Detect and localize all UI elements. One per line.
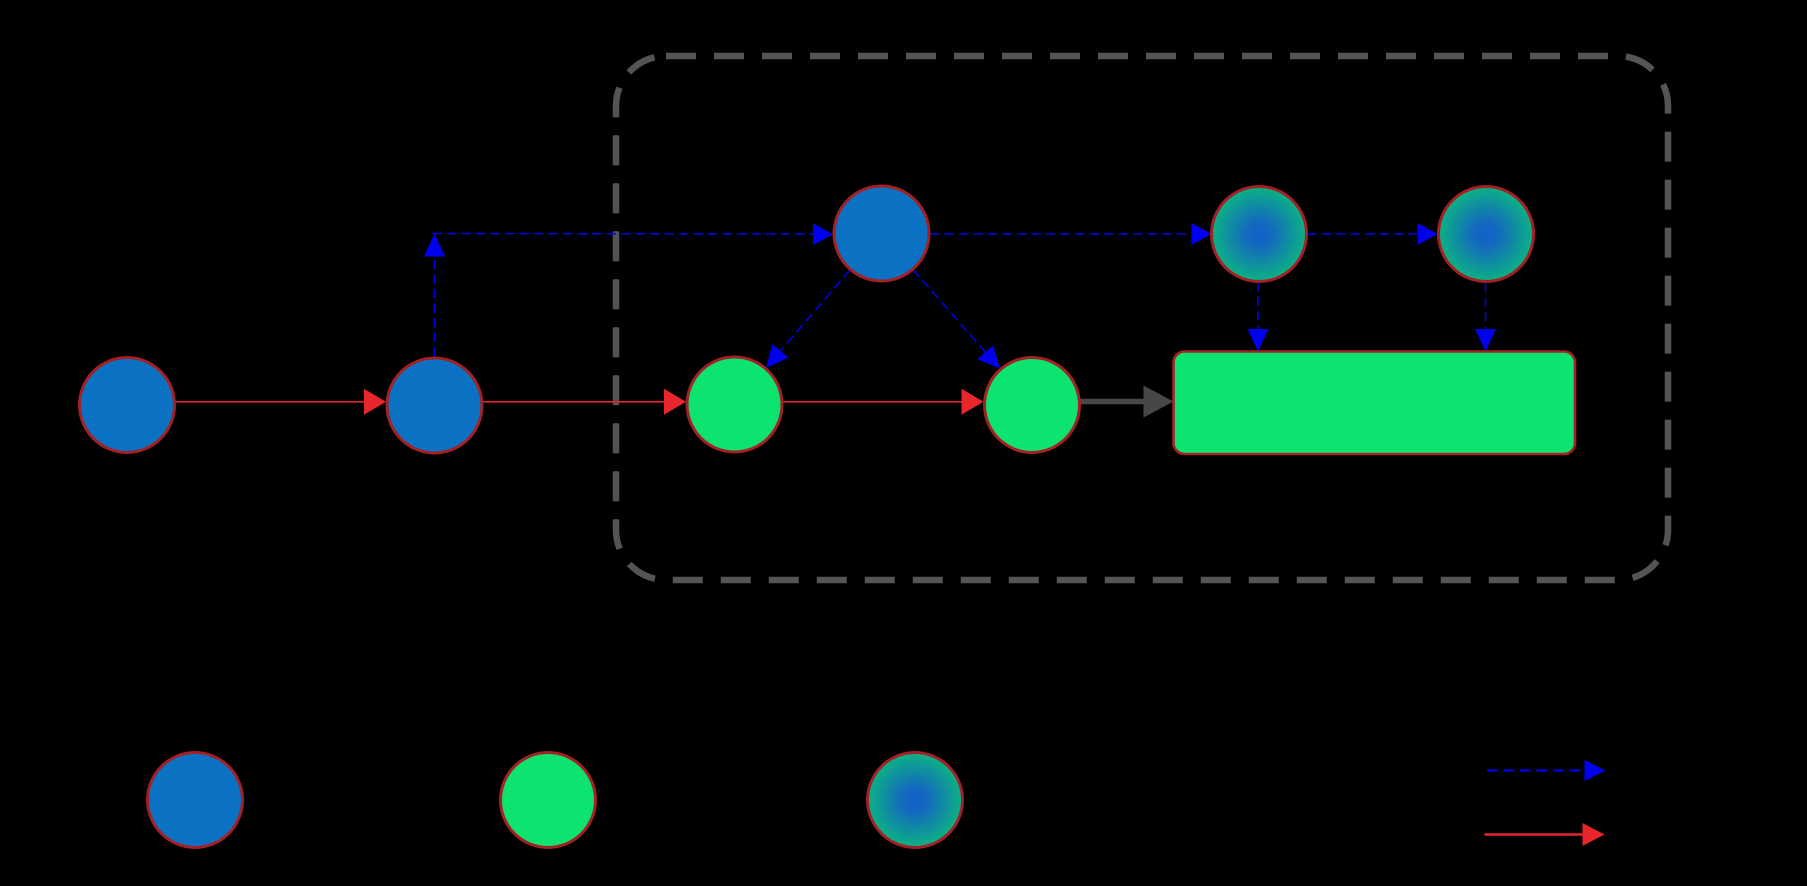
node N2 blue circle (387, 358, 482, 453)
red arrow N4 to N5 (783, 389, 984, 415)
blue dashed arrow N3 down-right to N5 (913, 270, 1000, 369)
blue dashed arrow N3 down-left to N4 (766, 270, 850, 368)
dashed container box (616, 56, 1668, 580)
node N5 green circle (985, 358, 1080, 453)
node N6 gradient circle (1212, 187, 1307, 282)
legend red arrow (1485, 823, 1605, 846)
legend blue dashed arrow (1487, 760, 1606, 781)
node N3 blue circle (top center) (834, 186, 929, 281)
blue dashed arrow N2 up to junction (424, 234, 445, 357)
blue dashed arrow N6 down to result box (1248, 282, 1269, 352)
node N4 green circle (687, 357, 782, 452)
legend green circle (501, 753, 596, 848)
node N1 blue circle (80, 358, 175, 453)
blue dashed arrow N3 to N6 (930, 223, 1212, 245)
legend gradient circle (868, 753, 963, 848)
red arrow N2 to N4 (483, 389, 686, 415)
legend blue circle (148, 753, 243, 848)
gray arrow N5 to result box (1081, 386, 1174, 418)
blue dashed arrow N7 down to result box (1475, 283, 1496, 352)
blue dashed arrow junction to N3 (433, 223, 834, 245)
node N7 gradient circle (1439, 187, 1534, 282)
blue dashed arrow N6 to N7 (1307, 223, 1438, 245)
result box (green rounded rectangle) (1174, 352, 1576, 455)
red arrow N1 to N2 (176, 389, 386, 415)
